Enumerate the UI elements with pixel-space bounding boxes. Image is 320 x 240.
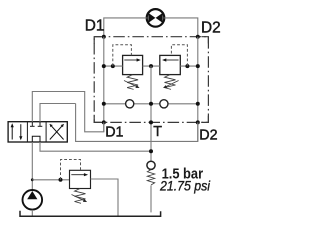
orifice ball B1 [126,100,134,108]
DV centre cell blocked ports [30,122,42,142]
wire P: valve port P down to pump [31,142,33,190]
directional valve DV body [8,122,67,142]
relief V2 spring [165,75,176,90]
relief R1 pilot dashed [61,160,81,180]
node D1 top [102,35,106,39]
wire relief outputs to T [143,65,160,67]
node orifice D1 [102,102,106,106]
relief V1 spring [127,75,138,90]
tank symbol [20,211,161,217]
wire motor right to D2 [164,18,198,37]
wire T vertical [150,66,152,161]
node T top [149,64,153,68]
relief V2 spring arrow [163,81,179,89]
motor M1 [147,9,165,27]
node V2 input on D2 [196,64,200,68]
node D2 top [196,35,200,39]
node D2 bottom [196,120,200,124]
svg-text:D1: D1 [85,18,105,35]
pump PU circle [23,190,43,210]
relief R1 internal arrow [71,173,88,176]
DV divider 1 [26,122,28,142]
relief V2 input wire from D2 [180,65,198,67]
DV left cell arrows [11,123,23,140]
node T tee [149,149,153,153]
relief valve V1 square [123,55,143,74]
svg-text:21.75 psi: 21.75 psi [159,178,211,194]
wire D2 vertical [197,37,199,142]
node V1 input on D1 [102,64,106,68]
wire pump to tank [31,210,33,217]
svg-text:D2: D2 [199,127,217,143]
pump PU triangle [27,191,37,199]
node D1 bottom [102,120,106,124]
DV right cell crossed arrows [50,124,64,139]
relief V2 internal arrow [162,58,179,61]
node orifice T [149,102,153,106]
node P tee [31,178,34,181]
wire check valve to tank [150,185,152,212]
relief valve R1 square [70,170,91,188]
wire orifice line D1 to D2 [104,103,198,105]
node V1 pilot tap [111,64,115,68]
wire R1 output to tank [91,179,119,216]
wire B2: to D2 stub [76,104,198,142]
svg-text:D1: D1 [105,125,123,141]
node T bottom [149,120,153,124]
DV divider 2 [45,122,47,142]
wire P tee to relief R1 [32,179,69,181]
relief V1 input wire from D1 [104,65,123,67]
manifold box dashed border [94,37,208,123]
wire D1 vertical [103,37,105,132]
svg-text:D2: D2 [201,19,221,36]
check valve spring [147,170,154,185]
orifice ball B2 [160,100,168,108]
wire B: valve port B upper [40,104,76,122]
relief R1 spring arrow [72,195,88,203]
node R1 pilot tap [59,178,63,182]
node orifice D2 [196,102,200,106]
relief valve V2 square [160,55,181,74]
relief V1 pilot dashed line [113,45,132,66]
wire valve T port to tank tee [40,142,151,151]
svg-text:T: T [153,124,162,140]
check valve CV ball [147,161,155,169]
relief V2 pilot dashed line [171,45,187,66]
wire motor left to D1 [104,18,147,37]
manifold box corner marks [94,37,101,44]
wire A: valve port A to D1 stub [32,92,104,132]
relief V1 internal arrow [124,58,141,61]
relief V1 spring arrow [124,81,140,89]
node V2 pilot tap [185,64,189,68]
relief R1 spring [75,189,86,204]
